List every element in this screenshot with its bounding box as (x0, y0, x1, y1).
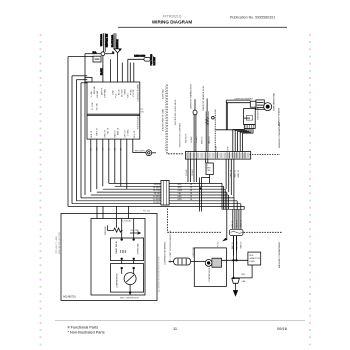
compressor motor (124, 273, 136, 285)
capacitor 4MFD box (204, 159, 206, 163)
wire: left bus 3 (75, 80, 77, 201)
svg-text:DR SW: DR SW (97, 91, 99, 98)
svg-text:FRONT FOOD COMPMNT: FRONT FOOD COMPMNT (180, 122, 182, 147)
overload protector (169, 260, 174, 262)
machine compartment label (278, 241, 281, 268)
see compressor note (120, 297, 140, 299)
wire gauge labels col A (153, 184, 161, 204)
svg-text:WHT 16: WHT 16 (236, 219, 238, 227)
svg-text:DEFROST THERMOSTAT: DEFROST THERMOSTAT (190, 84, 193, 109)
svg-text:LINE CORD: LINE CORD (134, 56, 145, 58)
svg-text:DEFROST HEATER: DEFROST HEATER (235, 98, 254, 101)
svg-text:RUN CAP: RUN CAP (131, 229, 140, 232)
svg-text:RED: RED (178, 196, 183, 198)
svg-text:BLU 18: BLU 18 (134, 130, 136, 138)
svg-text:WHT 18: WHT 18 (97, 127, 99, 135)
svg-text:TYPICAL P.T.C. AND: TYPICAL P.T.C. AND (55, 236, 58, 254)
svg-text:BRN: BRN (178, 199, 183, 201)
control board (87, 82, 140, 139)
wire: service loop arrow (226, 209, 228, 239)
labels on strip drops (231, 169, 241, 177)
compressor outline (194, 248, 226, 287)
svg-text:18 ORG: 18 ORG (153, 190, 161, 192)
wire: run cap return (251, 265, 253, 278)
run cap arrow (130, 232, 141, 235)
svg-text:18 BLK: 18 BLK (154, 184, 161, 186)
svg-text:SENS: SENS (124, 88, 126, 94)
start relay box (111, 238, 144, 261)
node: neutral junction (101, 52, 105, 56)
wire: relay to compressor (121, 261, 123, 264)
svg-text:EVAP: EVAP (215, 145, 218, 151)
svg-text:HTR: HTR (227, 146, 229, 151)
svg-text:WHITE 14GA: WHITE 14GA (100, 33, 103, 46)
freezer liner boundary (167, 85, 184, 154)
wire: riser to shell (233, 236, 235, 279)
wire: machine risers (232, 209, 234, 229)
note text columns left of box (55, 232, 61, 254)
svg-text:LT BLU: LT BLU (127, 128, 129, 135)
wire: switch drop to board (117, 53, 119, 82)
interlock box (93, 56, 101, 62)
svg-text:FAN MOTOR: FAN MOTOR (256, 107, 259, 119)
svg-text:BLK 18: BLK 18 (91, 130, 93, 137)
svg-text:LT. BLUE: LT. BLUE (123, 220, 132, 222)
note text column right of box (158, 256, 161, 292)
svg-text:P/N 216954601: P/N 216954601 (137, 114, 139, 129)
note text column (161, 89, 164, 131)
svg-text:GRN 16: GRN 16 (241, 219, 243, 227)
wire: heater loop left (225, 100, 227, 130)
svg-text:GRN: GRN (241, 274, 246, 276)
wire: PTC to run cap (222, 259, 248, 261)
accessory inner box (91, 219, 145, 296)
svg-text:LT BLU: LT BLU (196, 136, 198, 143)
svg-text:COMPRESSOR WIRING: COMPRESSOR WIRING (165, 241, 167, 265)
riser wire labels lower (232, 241, 242, 249)
svg-text:09/16: 09/16 (277, 326, 287, 331)
svg-text:ORG 18: ORG 18 (105, 129, 107, 137)
svg-text:18 WHT: 18 WHT (153, 187, 161, 189)
label compressor wiring (165, 230, 172, 265)
wire gauge labels col C (190, 184, 193, 201)
wire: left bus 5 (neutral) (84, 54, 86, 195)
wire: left bus 2 (71, 76, 73, 204)
svg-text:18 RED: 18 RED (153, 196, 161, 198)
svg-text:OVERLOAD: OVERLOAD (136, 243, 139, 255)
inline connector (230, 229, 244, 235)
wire: left bus 4 (80, 83, 82, 198)
control board pin labels bottom (91, 127, 136, 137)
svg-text:A01460701: A01460701 (63, 296, 76, 299)
svg-text:T2 CON: T2 CON (97, 103, 99, 111)
svg-text:RUN CAP P/N 242173301: RUN CAP P/N 242173301 (58, 232, 61, 254)
compressor motor box (111, 264, 144, 293)
svg-text:P11 OR: P11 OR (133, 89, 135, 97)
svg-text:BLACK: BLACK (100, 68, 103, 75)
svg-text:LINE: LINE (113, 89, 115, 94)
staircase merge (222, 208, 244, 210)
compressor compartment outer box (61, 213, 157, 300)
svg-text:16 BLK: 16 BLK (191, 136, 193, 143)
wire: supply pair (white) (102, 33, 104, 52)
freezer lamp (133, 152, 146, 154)
labels above terminal strip (215, 145, 230, 151)
note under bundle (143, 211, 150, 213)
svg-text:START RELAY: START RELAY (115, 240, 118, 254)
power cord capsule (128, 58, 144, 60)
svg-text:DEF HT: DEF HT (102, 87, 104, 95)
svg-text:* Non-Illustrated Parts: * Non-Illustrated Parts (68, 330, 105, 334)
wire: bundle right turndowns (221, 183, 223, 209)
wire gauge labels col B (178, 184, 183, 201)
PTC starter (205, 260, 212, 267)
footer rule (55, 320, 305, 322)
compressor shell terminal (232, 278, 240, 283)
svg-text:BLK: BLK (178, 184, 182, 186)
page edge perforation dots left (40, 34, 42, 345)
wire: left bus outer drop (67, 57, 69, 207)
EMI filter box (85, 77, 92, 82)
svg-text:PWR CORD: PWR CORD (151, 54, 153, 66)
svg-text:18 GRY: 18 GRY (153, 202, 161, 204)
wire: node drop to board (102, 56, 104, 82)
svg-text:18 WHT: 18 WHT (192, 168, 194, 176)
svg-text:FFTR2021Q: FFTR2021Q (163, 15, 182, 19)
header rule (118, 26, 287, 28)
control board pin labels mid (92, 102, 99, 110)
svg-text:EVP FAN: EVP FAN (104, 89, 107, 98)
wire: inner feeds (121, 219, 123, 239)
svg-text:NEU WH: NEU WH (94, 85, 96, 94)
control board label (136, 84, 139, 129)
control board pin labels top (91, 85, 135, 97)
wire: lamp feed pair (199, 178, 201, 212)
svg-text:CAPACITOR: CAPACITOR (249, 257, 260, 260)
riser wire labels upper (232, 219, 242, 227)
page edge perforation dots right (309, 34, 311, 345)
svg-text:FREEZER: FREEZER (105, 226, 107, 235)
svg-text:P3 BU: P3 BU (130, 89, 132, 95)
svg-text:# Functional Parts: # Functional Parts (68, 326, 99, 330)
svg-text:BLK WHT: BLK WHT (154, 56, 156, 65)
relay contact comb (120, 250, 122, 253)
svg-text:PLUG: PLUG (218, 242, 220, 247)
evaporator sensor wire (214, 110, 216, 152)
wire: neutral run to left bus (85, 53, 101, 55)
svg-text:LT BLU: LT BLU (186, 169, 188, 176)
svg-text:GRN 16: GRN 16 (241, 241, 243, 249)
wire labels on pin drops (91, 147, 123, 151)
defrost thermostat (194, 99, 196, 110)
wire: drops into box (96, 206, 98, 218)
svg-text:FREEZER COMPARTMENT: FREEZER COMPARTMENT (278, 121, 281, 148)
svg-text:DC OUT: DC OUT (121, 89, 123, 97)
svg-text:4 MFD: 4 MFD (249, 261, 255, 263)
wire: heater loop second (226, 102, 250, 104)
machine compartment boundary (166, 209, 168, 233)
svg-text:COMPRESSOR: COMPRESSOR (117, 273, 119, 288)
svg-text:BRN 18: BRN 18 (238, 169, 240, 177)
svg-text:FRZ LIGHT: FRZ LIGHT (135, 150, 146, 152)
wires into board top (121, 63, 123, 83)
svg-text:ORG: ORG (178, 190, 183, 192)
svg-text:RED 18: RED 18 (115, 130, 117, 138)
wire: heater loop top (226, 99, 250, 101)
svg-text:DEFROST HEATER 16 W: DEFROST HEATER 16 W (202, 86, 205, 110)
svg-text:18 YEL: 18 YEL (154, 193, 161, 195)
evaporator fan motor (250, 101, 256, 107)
heater terminal comb (244, 125, 255, 129)
wire: cord drop (127, 59, 129, 82)
defrost heater element box (244, 109, 256, 125)
run capacitor (248, 252, 261, 265)
wire: heater drops to strip (233, 128, 245, 151)
svg-text:NEUTRAL WH: NEUTRAL WH (105, 33, 108, 47)
harness bundle (109, 182, 222, 184)
svg-text:BLACK 14GA: BLACK 14GA (111, 34, 114, 47)
svg-text:L1 BK: L1 BK (91, 90, 93, 96)
svg-text:WHT: WHT (178, 187, 183, 189)
svg-text:SEE COMPRESSOR: SEE COMPRESSOR (120, 297, 140, 299)
freezer compartment label (278, 121, 281, 148)
svg-text:T1 CON: T1 CON (92, 102, 94, 110)
svg-text:COMPRESSOR: COMPRESSOR (209, 267, 211, 282)
earth stub label (141, 109, 144, 114)
svg-text:BRN 18: BRN 18 (117, 127, 119, 135)
svg-text:ORG 16: ORG 16 (209, 136, 211, 144)
svg-text:11: 11 (173, 326, 177, 331)
svg-text:YEL 18: YEL 18 (108, 127, 110, 134)
wire: overload to PTC (191, 260, 206, 262)
freezer/food boundary dashes (250, 154, 281, 156)
svg-text:RUN: RUN (249, 255, 254, 257)
svg-text:P.N. 242: P.N. 242 (143, 211, 150, 213)
svg-text:EVAPORATOR FAN: EVAPORATOR FAN (273, 92, 276, 111)
svg-text:AC IN: AC IN (117, 89, 120, 95)
wire: strip drops left (187, 159, 189, 182)
svg-text:WHT 16: WHT 16 (202, 136, 204, 144)
svg-text:NTC: NTC (127, 93, 129, 98)
svg-text:WIRING DIAGRAM: WIRING DIAGRAM (152, 20, 192, 25)
ground arrow (233, 291, 237, 296)
wire: board pin drops (90, 140, 92, 193)
door switch (114, 49, 121, 53)
svg-text:GRY 18: GRY 18 (124, 130, 126, 138)
svg-text:LINE BLK: LINE BLK (117, 39, 119, 48)
harness connector strip (161, 181, 169, 206)
wire: drops below connector (233, 236, 235, 256)
svg-text:RED 18: RED 18 (234, 169, 236, 177)
thermal fuse resistor (206, 99, 208, 112)
wire: strip drops right (225, 159, 227, 189)
svg-text:ALL WIRING SHOWN IN RUN POSITI: ALL WIRING SHOWN IN RUN POSITION (158, 256, 161, 292)
svg-text:P.T.C. START WITH RUN CAPACITO: P.T.C. START WITH RUN CAPACITOR (169, 230, 172, 263)
svg-text:CONTROL BOARD: CONTROL BOARD (136, 84, 139, 102)
svg-text:ROUTED WH 14 ALL WHLS: ROUTED WH 14 ALL WHLS (174, 99, 177, 125)
wire: node to switch (105, 53, 114, 55)
svg-text:18 BRN: 18 BRN (153, 199, 161, 201)
svg-text:SEE NOTE: SEE NOTE (185, 133, 187, 143)
svg-text:(FRONT VIEW OF CAB): (FRONT VIEW OF CAB) (161, 109, 164, 131)
terminal strip (185, 152, 250, 160)
svg-text:NOTE TAG: NOTE TAG (162, 89, 165, 99)
wire: supply pair (black) (113, 33, 115, 49)
svg-text:BLK 16: BLK 16 (232, 220, 234, 227)
svg-text:Publication No. 5995580391: Publication No. 5995580391 (230, 16, 275, 20)
svg-text:ORG 18: ORG 18 (231, 169, 233, 177)
svg-text:MACHINE COMPARTMENT: MACHINE COMPARTMENT (278, 241, 281, 268)
cold control zigzag (108, 228, 123, 232)
